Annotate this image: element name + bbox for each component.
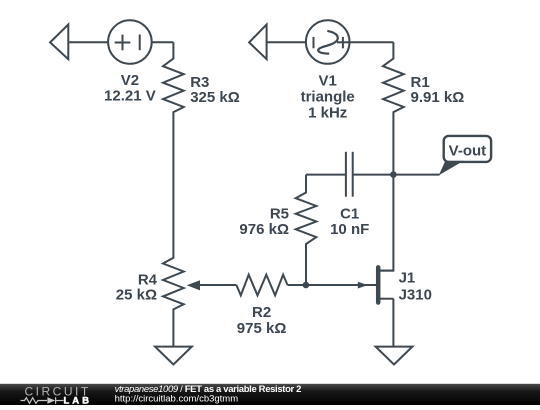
svg-text:V1: V1: [319, 73, 337, 90]
svg-text:R5: R5: [270, 205, 289, 222]
svg-text:R2: R2: [252, 304, 271, 321]
svg-text:V-out: V-out: [449, 142, 487, 159]
svg-text:975 kΩ: 975 kΩ: [237, 320, 287, 337]
svg-text:LAB: LAB: [64, 395, 93, 405]
svg-text:25 kΩ: 25 kΩ: [116, 287, 157, 304]
svg-text:325 kΩ: 325 kΩ: [190, 89, 240, 106]
svg-text:10 nF: 10 nF: [330, 221, 369, 238]
svg-text:976 kΩ: 976 kΩ: [239, 221, 289, 238]
svg-text:http://circuitlab.com/cb3gtmm: http://circuitlab.com/cb3gtmm: [115, 394, 239, 405]
svg-text:12.21 V: 12.21 V: [104, 88, 156, 105]
svg-text:J1: J1: [399, 270, 416, 287]
svg-text:V2: V2: [121, 72, 139, 89]
svg-text:triangle: triangle: [301, 89, 355, 106]
svg-text:1 kHz: 1 kHz: [308, 105, 347, 122]
svg-text:J310: J310: [399, 287, 432, 304]
svg-text:9.91 kΩ: 9.91 kΩ: [411, 89, 465, 106]
svg-text:C1: C1: [340, 205, 359, 222]
